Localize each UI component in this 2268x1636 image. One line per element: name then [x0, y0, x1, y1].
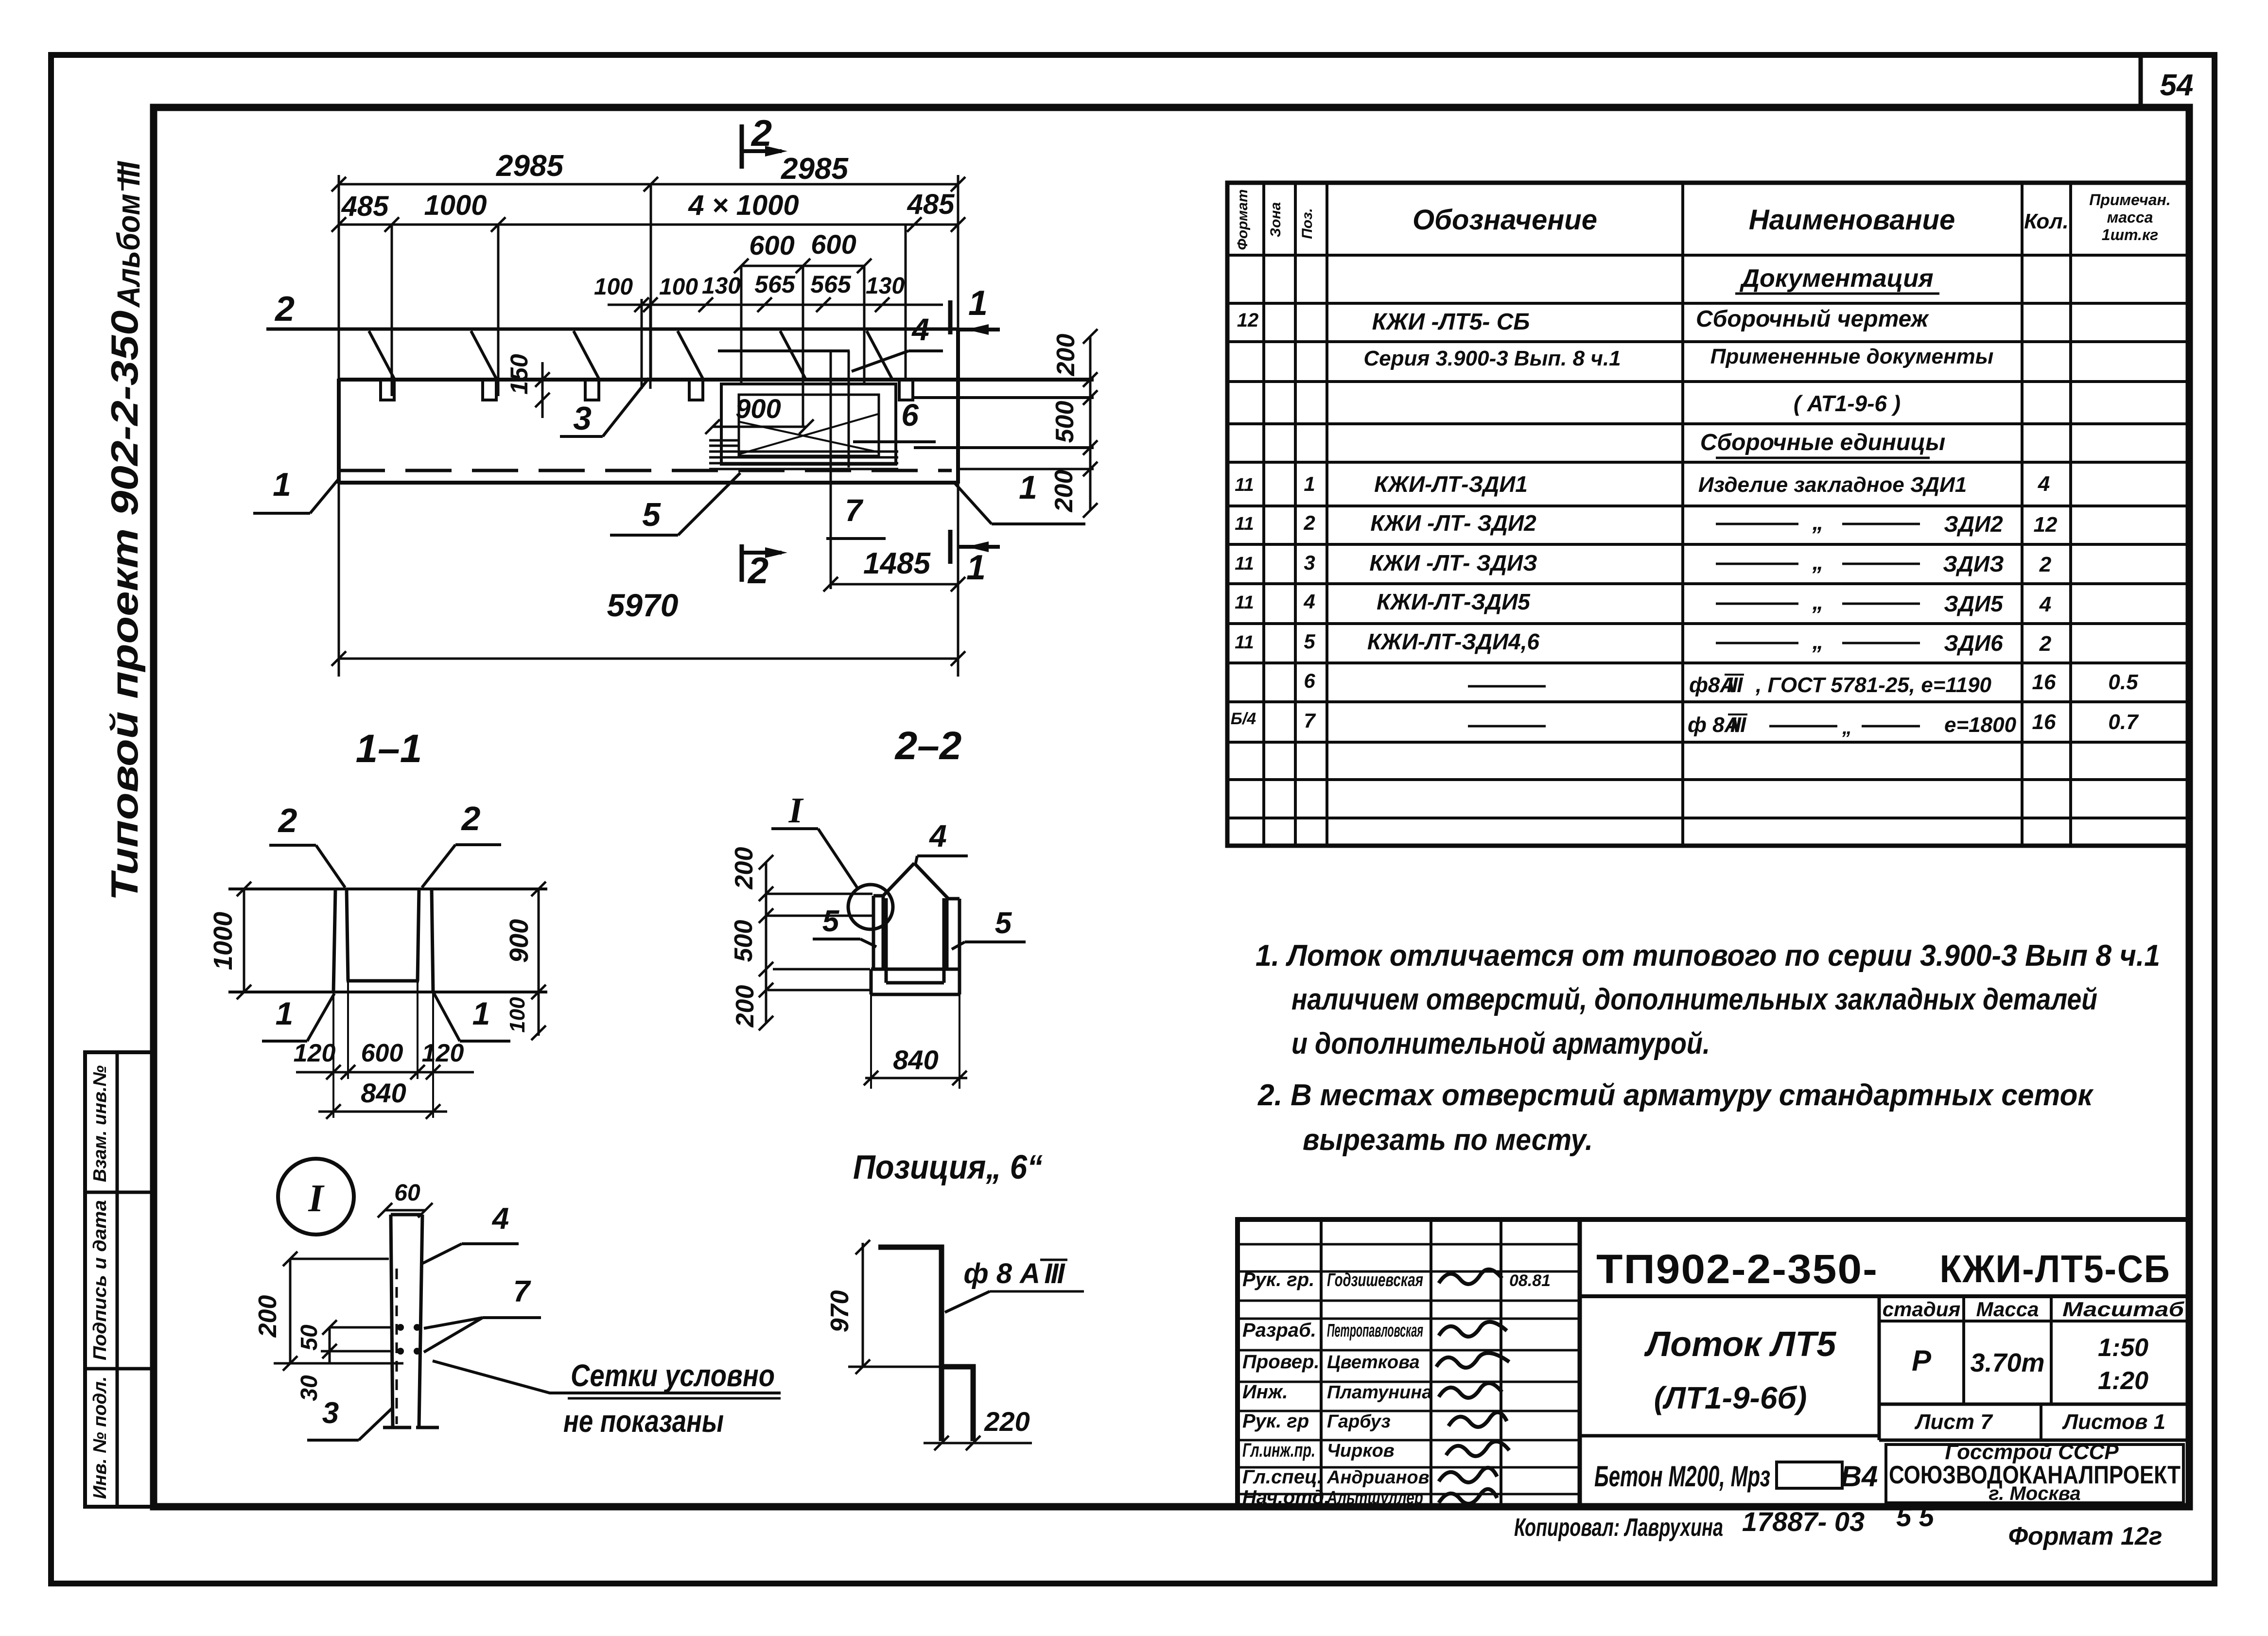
svg-text:565: 565: [810, 271, 852, 298]
svg-text:1: 1: [966, 548, 986, 587]
svg-text:1–1: 1–1: [356, 727, 422, 771]
svg-text:1000: 1000: [424, 190, 487, 221]
svg-text:Формат 12г: Формат 12г: [2008, 1522, 2162, 1550]
extension line at 1652: [802, 266, 804, 427]
svg-text:стадия: стадия: [1883, 1298, 1960, 1321]
svg-text:11: 11: [1235, 592, 1254, 613]
svg-text:Масса: Масса: [1976, 1298, 2039, 1321]
svg-text:2: 2: [747, 550, 768, 592]
svg-text:Альбом III: Альбом III: [110, 161, 146, 308]
svg-text:Гарбуз: Гарбуз: [1327, 1411, 1391, 1432]
svg-text:Петропавловская: Петропавловская: [1327, 1321, 1423, 1341]
svg-text:Платунина: Платунина: [1327, 1382, 1432, 1403]
svg-text:100: 100: [594, 274, 633, 300]
section 1-1 top line with dim: [228, 888, 547, 890]
svg-text:вырезать по месту.: вырезать по месту.: [1303, 1123, 1593, 1157]
svg-text:Поз.: Поз.: [1299, 208, 1315, 239]
svg-text:11: 11: [1235, 514, 1254, 534]
svg-text:I: I: [788, 791, 804, 831]
svg-text:100: 100: [659, 274, 698, 300]
svg-text:5: 5: [822, 905, 840, 938]
svg-text:„: „: [1812, 549, 1824, 574]
detail I rebar dots: [397, 1324, 404, 1331]
svg-text:Масштаб: Масштаб: [2062, 1298, 2184, 1321]
extension line at 1778: [863, 266, 866, 385]
svg-text:III: III: [1044, 1258, 1065, 1289]
svg-text:не показаны: не показаны: [563, 1404, 724, 1439]
plan view: dashed axis line: [339, 469, 952, 472]
svg-text:5: 5: [995, 906, 1012, 940]
plan view: wall inner line L2: [339, 378, 1094, 382]
svg-text:1шт.кг: 1шт.кг: [2102, 226, 2158, 244]
svg-text:г. Москва: г. Москва: [1989, 1483, 2080, 1504]
svg-text:1000: 1000: [209, 912, 238, 970]
opening inner frame rect: [739, 395, 879, 456]
title block outer rect: [1238, 1219, 2189, 1507]
svg-text:130: 130: [702, 273, 741, 299]
svg-text:2: 2: [274, 290, 295, 329]
svg-text:150: 150: [506, 354, 533, 395]
svg-text:11: 11: [1235, 554, 1254, 574]
svg-text:(ЛТ1-9-6б): (ЛТ1-9-6б): [1654, 1380, 1807, 1415]
svg-text:120: 120: [294, 1039, 336, 1067]
svg-text:Документация: Документация: [1739, 264, 1933, 293]
detail I circle mark: [278, 1159, 354, 1235]
position 6 dimension 970: [862, 1243, 864, 1367]
position 6 dimension 220: [924, 1442, 1032, 1445]
svg-text:16: 16: [2032, 710, 2056, 734]
svg-text:600: 600: [361, 1039, 403, 1067]
svg-text:КЖИ -ЛТ- ЗДИЗ: КЖИ -ЛТ- ЗДИЗ: [1369, 550, 1537, 575]
svg-text:, ГОСТ 5781-25, е=1190: , ГОСТ 5781-25, е=1190: [1755, 673, 1992, 697]
title block main divider: [1578, 1219, 1582, 1507]
section 2-2 slab: [871, 968, 960, 971]
extension line at 1025: [497, 225, 500, 396]
title block stage columns: [1878, 1296, 1881, 1440]
svg-text:масса: масса: [2107, 209, 2153, 226]
extension line at 1863: [905, 225, 907, 380]
svg-text:Годзишевская: Годзишевская: [1327, 1270, 1423, 1290]
section 1-1 bottom line with dim: [228, 991, 547, 993]
specification table: [1227, 183, 2189, 846]
svg-text:220: 220: [984, 1406, 1029, 1437]
svg-text:Рук. гр: Рук. гр: [1242, 1410, 1309, 1432]
svg-text:КЖИ-ЛТ-ЗДИ4,6: КЖИ-ЛТ-ЗДИ4,6: [1367, 629, 1540, 654]
svg-text:120: 120: [422, 1039, 464, 1067]
svg-text:2: 2: [1303, 511, 1315, 534]
svg-text:( АТ1-9-6 ): ( АТ1-9-6 ): [1794, 391, 1901, 416]
svg-text:4: 4: [2039, 592, 2051, 616]
svg-text:Альтшуллер: Альтшуллер: [1326, 1488, 1423, 1508]
section 1-1 dim vertical 900/100 right: [538, 889, 540, 1036]
svg-text:Инж.: Инж.: [1242, 1381, 1288, 1403]
svg-text:Примененные документы: Примененные документы: [1710, 345, 1994, 368]
svg-text:ф 8 А: ф 8 А: [963, 1258, 1040, 1289]
svg-text:565: 565: [754, 271, 796, 298]
svg-text:4 × 1000: 4 × 1000: [688, 190, 799, 221]
svg-text:Разраб.: Разраб.: [1242, 1320, 1316, 1341]
svg-text:е=1800: е=1800: [1944, 713, 2017, 737]
svg-text:1:50: 1:50: [2098, 1334, 2148, 1362]
svg-text:100: 100: [506, 997, 529, 1033]
opening vertical pair line 2: [848, 351, 850, 468]
svg-text:3: 3: [322, 1396, 339, 1430]
svg-text:200: 200: [730, 847, 758, 890]
svg-text:Сборочные единицы: Сборочные единицы: [1700, 430, 1946, 455]
svg-text:7: 7: [845, 493, 864, 528]
svg-text:КЖИ -ЛТ- ЗДИ2: КЖИ -ЛТ- ЗДИ2: [1370, 510, 1536, 536]
svg-text:„: „: [1812, 509, 1824, 535]
svg-text:900: 900: [505, 919, 534, 963]
svg-text:Лист 7: Лист 7: [1914, 1410, 1993, 1434]
svg-text:08.81: 08.81: [1509, 1271, 1551, 1290]
svg-text:5970: 5970: [607, 587, 679, 623]
note: сетки условно не показаны: [433, 1361, 781, 1393]
section 2-2 dim vertical 200/500/200: [765, 862, 768, 1023]
svg-text:Наименование: Наименование: [1749, 204, 1955, 236]
svg-text:17887- 03: 17887- 03: [1742, 1506, 1865, 1537]
svg-text:2: 2: [461, 800, 481, 837]
title block бетон divider: [1580, 1434, 1879, 1438]
dimension 150 for plate offset: [541, 362, 544, 418]
embedded plates ZDI in plan: [381, 380, 394, 400]
svg-text:ЗДИ5: ЗДИ5: [1944, 591, 2004, 616]
extension line at 806: [391, 225, 393, 396]
svg-text:ЗДИ2: ЗДИ2: [1944, 511, 2003, 537]
svg-text:3.70т: 3.70т: [1970, 1348, 2044, 1377]
section flag 2 bottom: [740, 544, 744, 582]
svg-text:2985: 2985: [496, 149, 564, 183]
svg-text:Сборочный чертеж: Сборочный чертеж: [1696, 306, 1930, 332]
svg-text:Взам. инв.№: Взам. инв.№: [90, 1065, 110, 1182]
section flag 1 top right: [948, 300, 953, 334]
svg-text:2985: 2985: [781, 152, 849, 186]
svg-text:КЖИ-ЛТ-ЗДИ5: КЖИ-ЛТ-ЗДИ5: [1377, 589, 1531, 614]
section flag 2 top: [740, 124, 744, 169]
svg-text:Гл.инж.пр.: Гл.инж.пр.: [1242, 1440, 1315, 1461]
rebar bars pos7 in plan: [709, 451, 898, 453]
svg-text:Бетон М200, Мрз: Бетон М200, Мрз: [1594, 1460, 1770, 1493]
svg-text:Кол.: Кол.: [2024, 209, 2069, 233]
svg-text:970: 970: [826, 1290, 854, 1333]
section 1-1 dimension 840: [318, 1111, 447, 1113]
svg-text:3: 3: [1304, 551, 1315, 574]
svg-text:1: 1: [472, 995, 490, 1031]
svg-text:КЖИ -ЛТ5- СБ: КЖИ -ЛТ5- СБ: [1372, 309, 1530, 335]
svg-text:1: 1: [968, 284, 988, 323]
svg-text:5: 5: [642, 496, 661, 533]
dimension 1485: [831, 583, 958, 586]
section 2-2 hole pentagon: [882, 863, 914, 897]
section 2-2 right wall: [945, 899, 949, 969]
section 1-1 dimension 120/600/120: [296, 1071, 474, 1074]
svg-text:Б/4: Б/4: [1231, 710, 1256, 728]
joint double line in plan: [641, 299, 643, 389]
opening outer frame rect: [721, 384, 896, 464]
svg-text:„: „: [1812, 589, 1824, 614]
svg-text:Сетки условно: Сетки условно: [571, 1358, 775, 1393]
svg-text:16: 16: [2032, 670, 2056, 694]
svg-text:ЗДИЗ: ЗДИЗ: [1943, 551, 2004, 576]
plan view: top body line L1: [266, 328, 958, 331]
svg-text:1. Лоток отличается от тип: 1. Лоток отличается от типового по серии…: [1256, 939, 2160, 973]
dimension line 485/1000/4x1000/485: [339, 224, 958, 226]
opening diagonal brace 1: [740, 414, 878, 454]
svg-text:200: 200: [1052, 334, 1080, 377]
signature squiggles: [1439, 1270, 1502, 1284]
svg-text:III: III: [1727, 673, 1743, 697]
svg-text:840: 840: [893, 1044, 938, 1075]
left stamp table: [85, 1052, 154, 1507]
svg-text:600: 600: [811, 229, 856, 260]
detail I wall base marks: [383, 1426, 411, 1429]
section flag 1 bottom right: [948, 530, 953, 564]
svg-text:Подпись и дата: Подпись и дата: [90, 1200, 110, 1360]
opening diagonal brace 2: [740, 422, 878, 452]
svg-text:Гл.спец.: Гл.спец.: [1242, 1466, 1323, 1488]
svg-text:5: 5: [1304, 630, 1315, 653]
title block designation row divider: [1580, 1294, 2189, 1298]
svg-text:2: 2: [278, 801, 297, 839]
svg-text:500: 500: [730, 920, 758, 962]
plan view: right body edge: [956, 329, 960, 484]
svg-text:485: 485: [907, 189, 955, 220]
right side dimension 200/500/200: [1089, 336, 1092, 510]
svg-text:В4: В4: [1841, 1460, 1878, 1493]
section 2-2 left wall: [872, 896, 875, 969]
svg-text:Позиция„ 6“: Позиция„ 6“: [853, 1148, 1043, 1186]
svg-text:КЖИ-ЛТ-ЗДИ1: КЖИ-ЛТ-ЗДИ1: [1374, 471, 1528, 497]
position 6 bar shape: [878, 1247, 942, 1441]
svg-text:3: 3: [573, 400, 592, 437]
svg-text:12: 12: [2034, 513, 2058, 537]
svg-text:2: 2: [750, 113, 772, 154]
svg-text:ТП902-2-350-: ТП902-2-350-: [1596, 1246, 1878, 1292]
svg-text:„: „: [1812, 628, 1824, 654]
svg-text:2: 2: [2039, 553, 2052, 576]
svg-text:наличием отверстий, дополнит: наличием отверстий, дополнительных закла…: [1291, 983, 2097, 1016]
svg-text:Формат: Формат: [1235, 189, 1251, 250]
svg-text:900: 900: [735, 393, 781, 424]
section 1-1 dim vertical 1000 left: [243, 889, 245, 992]
plan view: bottom body line L3: [339, 481, 958, 485]
title block signature column lines: [1320, 1219, 1323, 1507]
inner drawing frame: [154, 107, 2189, 1507]
svg-text:Андрианов: Андрианов: [1326, 1467, 1430, 1488]
svg-text:1485: 1485: [863, 547, 931, 580]
section 2-2 detail circle I: [848, 885, 893, 929]
svg-text:Рук. гр.: Рук. гр.: [1242, 1269, 1314, 1290]
svg-text:„: „: [1842, 717, 1852, 738]
svg-text:Изделие закладное ЗДИ1: Изделие закладное ЗДИ1: [1698, 473, 1967, 497]
svg-text:Нач.отд.: Нач.отд.: [1242, 1487, 1329, 1508]
svg-text:Чирков: Чирков: [1327, 1441, 1395, 1461]
section 2-2 extension lines: [766, 893, 872, 895]
detail I wall fragment: [391, 1215, 393, 1427]
svg-text:4: 4: [1303, 590, 1315, 613]
svg-text:Копировал: Лаврухина: Копировал: Лаврухина: [1514, 1514, 1723, 1542]
svg-text:7: 7: [513, 1275, 531, 1308]
svg-text:4: 4: [2038, 472, 2050, 496]
svg-text:2. В местах отверстий арм: 2. В местах отверстий арматуру стандартн…: [1257, 1079, 2094, 1112]
rebar bar stubs in plan: [709, 439, 739, 442]
detail I dimension 60: [385, 1209, 425, 1212]
detail I dimension 200: [289, 1259, 292, 1363]
svg-text:6: 6: [901, 398, 919, 433]
svg-text:6: 6: [1304, 669, 1315, 692]
section 1-1 left wall: [333, 889, 335, 992]
embedded plate diagonals from L1: [369, 331, 394, 379]
dimension line 600/600: [741, 265, 864, 267]
svg-text:200: 200: [731, 985, 759, 1028]
svg-text:200: 200: [254, 1295, 282, 1338]
svg-text:12: 12: [1237, 310, 1259, 331]
dimension line 2985+2985: [339, 183, 958, 186]
svg-text:ЗДИ6: ЗДИ6: [1944, 630, 2003, 656]
svg-text:2: 2: [2039, 632, 2052, 656]
svg-text:Провер.: Провер.: [1242, 1351, 1320, 1373]
svg-text:7: 7: [1304, 709, 1316, 732]
svg-text:50: 50: [297, 1324, 322, 1351]
plan view: left dimension extension line: [338, 175, 340, 677]
svg-text:4: 4: [491, 1202, 509, 1236]
section 2-2 dimension 840: [870, 994, 872, 1089]
svg-text:840: 840: [361, 1078, 406, 1108]
svg-text:1: 1: [273, 466, 291, 503]
svg-text:Серия 3.900-3 Вып. 8 ч.1: Серия 3.900-3 Вып. 8 ч.1: [1363, 347, 1621, 370]
svg-text:Лоток ЛТ5: Лоток ЛТ5: [1644, 1325, 1836, 1364]
svg-text:III: III: [1730, 713, 1746, 737]
svg-text:4: 4: [911, 312, 929, 347]
svg-text:60: 60: [394, 1180, 420, 1206]
svg-text:КЖИ-ЛТ5-СБ: КЖИ-ЛТ5-СБ: [1940, 1247, 2171, 1290]
svg-text:Листов 1: Листов 1: [2062, 1410, 2165, 1434]
section 1-1 right wall: [432, 889, 433, 992]
svg-text:I: I: [308, 1177, 325, 1220]
svg-text:2–2: 2–2: [894, 724, 962, 768]
svg-text:54: 54: [2160, 69, 2194, 102]
dimension line 100/100/130/565/565/130: [608, 304, 943, 306]
svg-text:11: 11: [1235, 632, 1254, 653]
svg-text:Примечан.: Примечан.: [2089, 191, 2170, 209]
svg-text:1: 1: [1304, 472, 1315, 495]
svg-text:Р: Р: [1912, 1344, 1932, 1377]
svg-text:1: 1: [276, 995, 294, 1031]
opening vertical pair line 1: [830, 351, 832, 589]
extension line at 1525: [740, 266, 743, 385]
svg-text:Зона: Зона: [1268, 202, 1284, 237]
svg-text:0.5: 0.5: [2108, 670, 2138, 694]
plan view: mid extension line for 2985 dims: [650, 184, 652, 380]
svg-text:30: 30: [297, 1375, 322, 1401]
dimension 900 of opening: [713, 426, 806, 428]
svg-text:200: 200: [1050, 470, 1078, 513]
plan view: right segment line lower: [914, 446, 1094, 449]
svg-text:485: 485: [341, 191, 389, 222]
svg-text:и дополнительной арматурой.: и дополнительной арматурой.: [1291, 1027, 1710, 1061]
svg-text:11: 11: [1235, 475, 1254, 495]
section 1-1 interior bottom: [347, 979, 419, 983]
plan view: left body edge: [337, 379, 341, 484]
svg-text:500: 500: [1051, 401, 1079, 443]
svg-text:Типовой проект 902-2-350: Типовой проект 902-2-350: [103, 311, 146, 901]
section 1-1 wall extension lines: [332, 992, 334, 1118]
svg-text:5 5: 5 5: [1896, 1501, 1935, 1532]
detail I dashed inner line: [396, 1269, 398, 1424]
svg-text:Инв. № подл.: Инв. № подл.: [90, 1376, 110, 1499]
svg-text:0.7: 0.7: [2108, 710, 2139, 734]
dimension 5970: [339, 658, 958, 660]
svg-text:600: 600: [749, 230, 794, 261]
svg-text:Цветкова: Цветкова: [1327, 1352, 1420, 1373]
svg-text:Обозначение: Обозначение: [1413, 204, 1597, 236]
svg-text:1: 1: [1019, 469, 1037, 506]
svg-text:130: 130: [866, 273, 905, 299]
opening frame top line: [718, 349, 850, 352]
svg-text:1:20: 1:20: [2098, 1367, 2148, 1395]
svg-text:4: 4: [928, 818, 947, 853]
page number box top right: [2139, 55, 2143, 107]
plan view: right dimension extension line: [957, 175, 960, 677]
detail I dimension 50: [329, 1327, 331, 1363]
title block СОЮЗВОДОКАНАЛПРОЕКТ stamp: [1886, 1445, 2183, 1503]
plan view: right segment line upper: [914, 396, 1094, 399]
